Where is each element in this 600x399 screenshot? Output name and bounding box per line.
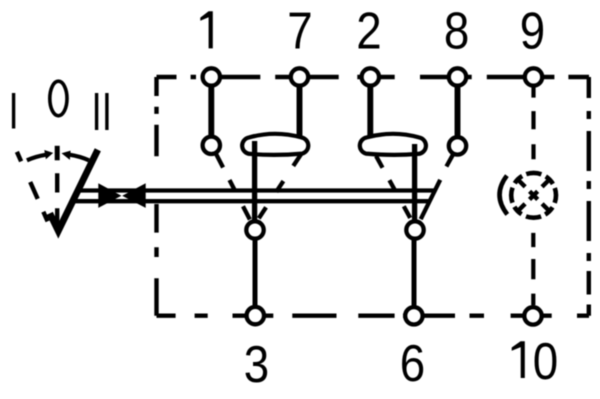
lever position I line (dashed) xyxy=(17,152,51,228)
terminal circle 10 xyxy=(524,307,541,324)
terminal circle 6 xyxy=(405,307,422,324)
movement arc left half xyxy=(27,155,46,161)
node label 1 xyxy=(200,11,213,48)
svg-text:2: 2 xyxy=(356,3,381,60)
arrowhead left (pointing right at tick) xyxy=(44,150,53,159)
contact stub from contact 8 xyxy=(446,154,453,167)
wire lamp to terminal 10 (dashed) xyxy=(531,233,535,305)
terminal circle 2 xyxy=(362,68,379,85)
terminal circle 3 xyxy=(247,307,264,324)
terminal circle 9 xyxy=(525,68,542,85)
svg-text:0: 0 xyxy=(533,333,558,390)
wire terminal 7 to rocker xyxy=(297,85,303,140)
switch housing border right (dash-dot) xyxy=(587,77,591,316)
svg-text:8: 8 xyxy=(444,3,469,60)
lamp L1 dashed X diagonal 1 xyxy=(518,180,550,212)
switch housing border top (dash-dot) xyxy=(157,77,590,316)
lamp L1 dashed X diagonal 2 xyxy=(518,180,550,212)
position label I xyxy=(12,93,15,129)
svg-text:9: 9 xyxy=(520,3,545,60)
wire terminal 2 to rocker xyxy=(367,85,373,140)
lamp L1 left parenthesis arc xyxy=(500,176,508,215)
contact arm 8 to 6 (solid diagonal) xyxy=(421,180,441,219)
svg-text:3: 3 xyxy=(244,336,269,393)
contact circle 3 upper xyxy=(246,221,263,238)
terminal circle 1 xyxy=(203,68,220,85)
svg-text:7: 7 xyxy=(287,3,312,60)
svg-text:6: 6 xyxy=(400,335,425,392)
actuator bar bottom line xyxy=(76,199,431,203)
dashed contact path contact1 to contact3 xyxy=(216,154,250,221)
position label 0 xyxy=(50,81,67,116)
movement arc right half xyxy=(70,155,89,161)
wire contact 3 to terminal 3 xyxy=(253,240,258,306)
lamp L1 dashed circle xyxy=(511,173,556,218)
lever position 0 center line (dashed) xyxy=(55,146,60,161)
switch housing border bottom (dash-dot) xyxy=(157,314,590,318)
wire terminal 8 to contact xyxy=(455,85,461,137)
terminal circle 7 xyxy=(291,68,308,85)
position label II xyxy=(97,93,107,130)
detent bowtie right triangle xyxy=(122,183,146,208)
wire contact 6 to terminal 6 xyxy=(412,240,417,306)
wire terminal 9 to lamp (dashed) xyxy=(531,86,535,160)
actuator bar top line xyxy=(76,188,435,192)
contact circle 8 lower xyxy=(449,137,466,154)
switch housing border left (dash-dot) xyxy=(154,77,158,316)
contact circle 6 upper xyxy=(406,221,423,238)
dashed contact path rocker1 to contact3 xyxy=(259,154,301,218)
moving contact pole 2 xyxy=(412,144,417,220)
terminal circle 8 xyxy=(449,68,466,85)
dashed contact path rocker2 to contact6 xyxy=(376,156,411,220)
actuator lever (solid, position II) with fork xyxy=(50,150,98,231)
contact circle 1 lower xyxy=(203,137,220,154)
wire terminal 1 to contact xyxy=(208,85,214,136)
arrowhead right (pointing left at tick) xyxy=(62,151,71,160)
detent bowtie left triangle xyxy=(98,183,121,208)
moving contact pole 1 xyxy=(252,141,257,220)
rocker bridge 1 xyxy=(242,134,308,155)
rocker bridge 2 (mirrored) xyxy=(360,134,426,155)
node label 10 digit 1 xyxy=(512,341,525,378)
